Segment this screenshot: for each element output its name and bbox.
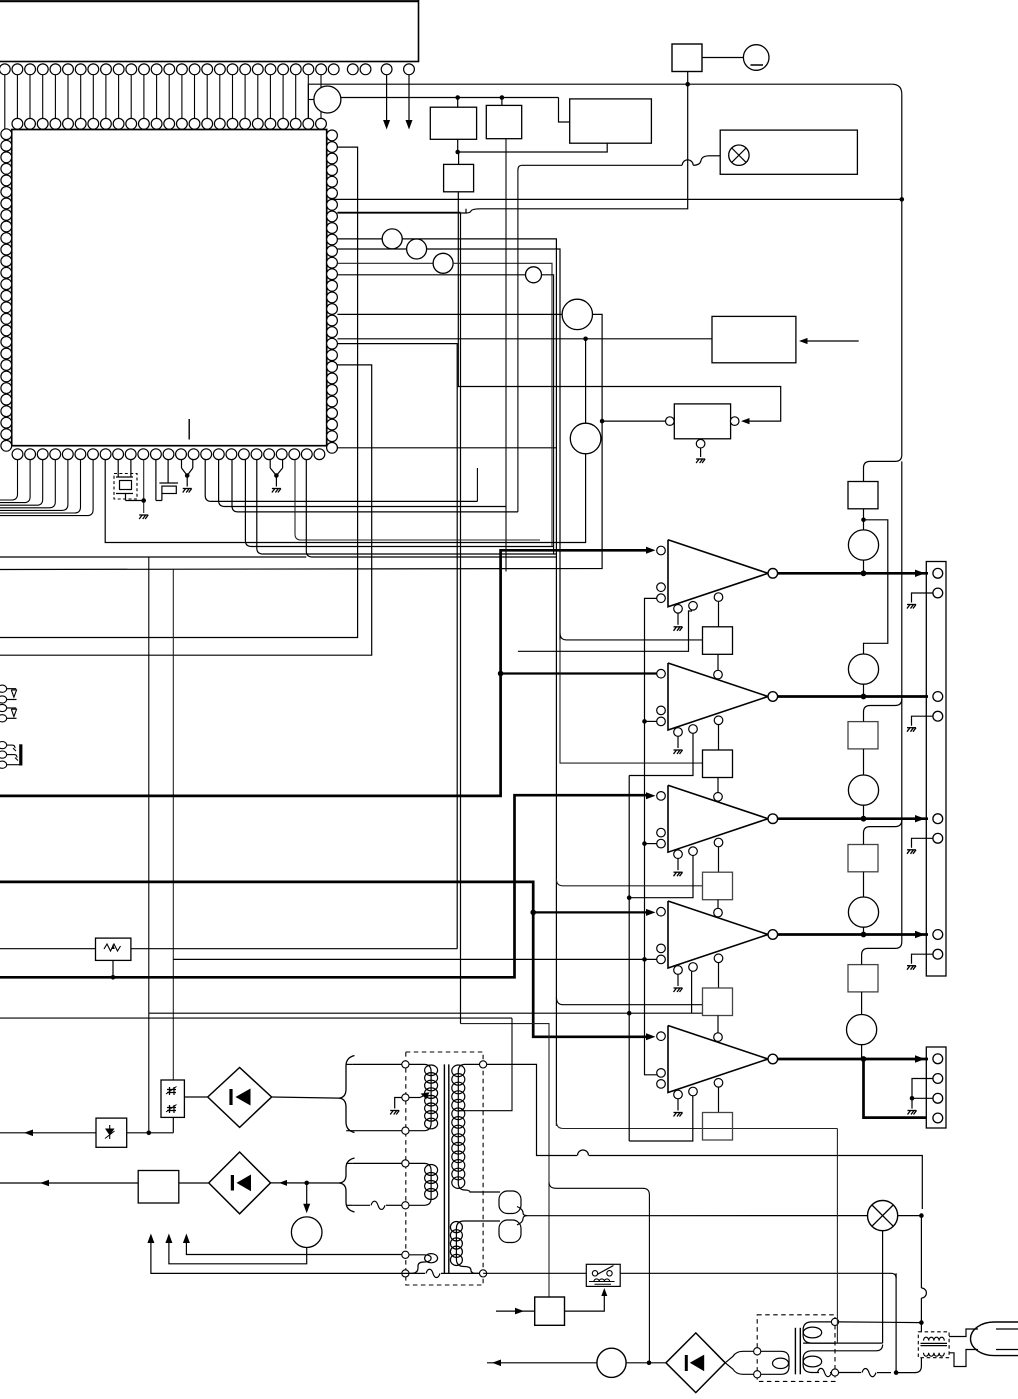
CN2 pin 3 <box>933 692 943 702</box>
wire J3 to output <box>863 805 865 819</box>
op-amp IC3 power amp ch2 <box>668 663 768 730</box>
T1 core <box>443 1064 445 1273</box>
IC5 bottom pin C <box>714 954 723 963</box>
wire BR2 bottom arm <box>353 1204 370 1206</box>
FL1 coil bottom <box>924 1353 945 1356</box>
wire to box B3 <box>559 98 570 123</box>
signal arrow down 1 <box>386 75 388 126</box>
IC4 bottom pin C <box>714 838 723 847</box>
wire amp4 bias long <box>173 958 656 960</box>
T1 secondary tap <box>458 1110 465 1112</box>
node TP7 feed <box>583 337 588 342</box>
surge absorber SA1 <box>0 1132 42 1134</box>
cable loops to AC line <box>472 1191 500 1193</box>
wire pin loop 2 <box>0 365 372 655</box>
X1 left pin <box>666 417 675 426</box>
power box PB1 <box>535 1297 565 1325</box>
CN2 pin 5 <box>933 814 943 824</box>
AC plug <box>970 1322 1018 1356</box>
feedback box FB5 <box>703 1113 733 1141</box>
IC U1 right pin 28 <box>327 442 338 453</box>
wire arrow into B5 <box>806 340 859 342</box>
wire gnd CN2 pin 4 <box>912 716 933 726</box>
CN2 pin 4 <box>933 711 943 721</box>
output jack J5 <box>847 1015 877 1045</box>
T1 terminal t9 <box>480 1270 487 1277</box>
wire BD2 row <box>0 1182 44 1184</box>
wire F1 to indicator <box>702 57 743 59</box>
wire PB1 to relay coil <box>565 1293 605 1311</box>
bridge rectifier BD2 <box>209 1152 271 1214</box>
fuse FS4 <box>848 965 878 992</box>
wire left exit 557 <box>0 556 306 558</box>
line filter FL1 box <box>918 1332 949 1358</box>
wire J1 to output <box>863 560 865 573</box>
node BD2 out <box>304 1181 309 1186</box>
wire supply line 1 <box>151 1240 425 1273</box>
IC6 output pin <box>768 1054 778 1064</box>
bus protect vertical <box>901 94 903 199</box>
wire t2 ground <box>395 1098 402 1109</box>
wire fan 7 <box>306 460 556 557</box>
wire osc vertical down <box>0 421 602 569</box>
arrow up 2 <box>165 1234 172 1244</box>
node AC bus <box>919 1213 924 1218</box>
wire output ch1 (thick) <box>778 572 928 575</box>
wire TP4 out <box>453 263 552 546</box>
T1 terminal t4 <box>402 1160 409 1167</box>
node box B1 feed <box>455 95 460 100</box>
IC4 bottom pin A <box>674 850 683 859</box>
fuse FS2 <box>848 722 878 749</box>
ground amp4 <box>674 988 683 992</box>
thermistor box TH1 <box>161 1080 184 1117</box>
arrow up 1 <box>147 1234 154 1244</box>
brace AC <box>517 1207 528 1225</box>
test point TP3 <box>407 239 427 259</box>
test point TP2 wire <box>337 238 382 240</box>
op-amp IC4 power amp ch3 <box>668 785 768 852</box>
T2 primary terminal 1 <box>754 1348 761 1355</box>
crystal circuit Z1 <box>117 460 119 477</box>
test point TP5 <box>526 267 542 283</box>
T1 terminal t2 <box>402 1094 409 1101</box>
wire FL2 to BD2 <box>179 1182 209 1184</box>
wire supply line 3 <box>186 1240 402 1255</box>
arrow up 3 <box>183 1234 190 1244</box>
connector CN1 (top board connector) <box>0 0 419 62</box>
T1 terminal t3 <box>402 1127 409 1134</box>
box B2 <box>501 98 503 106</box>
test point TP4 <box>433 253 453 273</box>
IC2 output pin <box>768 569 778 579</box>
wire FB4 down <box>717 1016 719 1033</box>
CN2 pin 1 <box>933 568 943 578</box>
node box B2 feed <box>500 95 505 100</box>
T1 terminal t7 <box>402 1270 409 1277</box>
ground CN2 1 <box>907 605 916 609</box>
wire jog to fuse S1 <box>864 455 902 482</box>
IC5 bottom pin A <box>674 966 683 975</box>
signal arrow down 2 <box>408 75 410 126</box>
op-amp IC6 power amp ch5 <box>668 1026 768 1093</box>
T1 primary winding W1 <box>402 1064 431 1130</box>
oscillator X1 box <box>674 404 730 439</box>
wire TP2 to bus A <box>402 239 556 1126</box>
wire FL1 to plug <box>949 1329 978 1337</box>
ground amp3 <box>674 872 683 876</box>
wire J4 to output <box>863 927 865 934</box>
bus amp4 amp5 feed (thick) <box>0 882 648 1037</box>
relay RL1 wire <box>483 1272 586 1274</box>
wire amp2 feed <box>501 672 657 674</box>
IC U1 left pins <box>1 129 12 451</box>
wire bundle fan 1 <box>205 460 477 502</box>
wire arrow to C bulk <box>306 1183 308 1206</box>
test point TP2 <box>382 229 402 249</box>
IC5 bottom pin B <box>689 963 698 972</box>
wire output ch5 (thick) <box>778 1058 928 1061</box>
wire pin to box B5 <box>337 338 712 340</box>
ground CN2 3 <box>907 850 916 854</box>
output jack J3 <box>848 775 878 805</box>
wire output ch3 (thick) <box>778 817 928 820</box>
wire jog to FS2 <box>864 699 902 722</box>
node amp4 feed <box>530 910 536 916</box>
fuse F1 <box>672 44 702 72</box>
output jack J2 <box>848 654 878 684</box>
wire gnd CN2 pin 2 <box>912 593 933 603</box>
wire TH1 to BD1 <box>184 1096 207 1098</box>
test point TP3 wire <box>337 248 406 250</box>
wire crystal gnd <box>126 500 144 502</box>
IC5 output pin <box>768 930 778 940</box>
node SA1 <box>147 1131 152 1136</box>
IC3 top pin <box>714 670 723 679</box>
bridge rectifier BD3 <box>666 1333 725 1393</box>
wire FS4 to J5 <box>861 992 863 1015</box>
ground T1 <box>390 1111 399 1115</box>
IC2 minus pins <box>657 583 666 592</box>
T2 secondary A <box>803 1322 836 1343</box>
IC6 bottom pin C <box>714 1079 723 1088</box>
fuse FS3 <box>848 845 878 872</box>
CN2 pin 7 <box>933 930 943 940</box>
T2 terminal sB <box>831 1369 838 1376</box>
wire ammeter line <box>487 1362 597 1364</box>
X1 bottom pin <box>696 439 705 448</box>
wire R1 right <box>131 948 457 950</box>
T1 terminal t6 <box>402 1251 409 1258</box>
box B3 (regulator) <box>570 99 652 143</box>
node amp2 bias <box>642 719 647 724</box>
wire W_b vertical feeds <box>148 557 150 1133</box>
wire B4 down to oscillator <box>458 192 780 421</box>
wire amp3 return <box>629 852 693 898</box>
capacitor C1 (ceramic) <box>155 460 157 501</box>
wire fan 6 <box>295 460 540 540</box>
T2 primary loop <box>725 1351 789 1374</box>
wire jog to FS3 <box>864 820 902 845</box>
X1 right pin <box>730 417 739 426</box>
IC U1 right pins <box>327 130 338 442</box>
IC5 top pin <box>714 908 723 917</box>
IC6 top pin <box>714 1033 723 1042</box>
ground CN3 <box>908 1111 917 1115</box>
wire sq2 feed <box>560 640 703 763</box>
CN3 pin 2 <box>933 1074 943 1084</box>
wire F1 down <box>481 72 688 209</box>
wire sq4 feed <box>556 997 702 1005</box>
wire AC bus down <box>920 1216 922 1288</box>
T1 primary winding W2 <box>402 1163 431 1205</box>
lamp symbol <box>729 145 749 165</box>
box B5 (detector) <box>712 316 796 362</box>
wire bias vertical <box>645 598 657 1074</box>
T2 primary terminal 2 <box>754 1371 761 1378</box>
wire TP3 to bus B <box>427 249 560 640</box>
wire pin to V bus <box>308 84 891 118</box>
wire TP1 stub <box>308 99 314 101</box>
transformer T2 box <box>757 1315 835 1382</box>
output jack J1 <box>848 530 878 560</box>
IC3 bottom pin B <box>689 725 698 734</box>
feedback box FB2 <box>703 750 733 778</box>
cable brace BR1 <box>339 1056 355 1133</box>
wire into PB1 <box>496 1310 535 1312</box>
cable brace BR2 <box>339 1158 355 1212</box>
wire gray link to relay <box>461 1024 550 1297</box>
node fuse feed <box>685 82 690 87</box>
connector pins group 2 (shielded) <box>0 742 7 749</box>
wire BR1 bottom arm <box>353 1130 402 1132</box>
wire pin9 to resistor line <box>337 344 457 949</box>
wire TP7 bottom loop <box>105 454 585 543</box>
wire into lamp box <box>693 156 709 166</box>
wire bus A to transformer line <box>556 1122 837 1129</box>
wire SA1 to TH1 <box>127 1132 174 1134</box>
node amp2 feed <box>498 671 504 677</box>
node AC filter <box>919 1320 924 1325</box>
wire T2B top join <box>836 1345 883 1351</box>
wire secondary top to AC <box>487 1064 577 1155</box>
IC4 bottom pin B <box>689 847 698 856</box>
wire osc feed line <box>149 1012 703 1014</box>
IC3 minus pins <box>657 706 666 715</box>
node r2 <box>627 895 632 900</box>
wire bus right top <box>332 198 902 200</box>
IC4 top pin <box>714 793 723 802</box>
relay RL1 <box>586 1264 620 1286</box>
wire jog to FS4 <box>862 942 902 965</box>
feedback box FB4 <box>703 988 733 1016</box>
wire long top feed <box>518 165 522 170</box>
wire bundle fan 2 <box>219 460 506 507</box>
capacitor C2 to gnd <box>181 460 183 468</box>
IC6 bottom pin B <box>689 1087 698 1096</box>
T1 terminal t1 <box>402 1061 409 1068</box>
wire BR1 top arm <box>353 1063 402 1065</box>
wire T2A top to filter <box>839 1321 922 1324</box>
wires CN1 to IC <box>5 75 321 130</box>
CN3 pin 3 <box>933 1093 943 1103</box>
fuse FS1 <box>848 482 878 509</box>
wire return vertical <box>629 730 693 776</box>
current meter M1 <box>597 1348 626 1377</box>
feedback box FB3 <box>703 872 733 900</box>
CN2 pin 8 <box>933 949 943 959</box>
test point TP5 wire <box>337 274 525 276</box>
IC5 input pin <box>657 907 666 916</box>
T1 winding tap arrow <box>409 1097 420 1099</box>
ground CN2 4 <box>907 966 916 970</box>
ground X1 <box>696 459 705 463</box>
connector pins group 1 <box>0 685 7 692</box>
wire lower link <box>337 447 556 449</box>
lamp box (display) <box>720 130 857 174</box>
wire CN3 return (thick) <box>864 1059 927 1118</box>
box B4 (small) <box>444 164 474 191</box>
IC U1 (main processor) <box>12 130 327 446</box>
FL1 coil top <box>924 1337 945 1340</box>
wire bundle fan 5 <box>257 460 557 554</box>
wire FS3 to J4 <box>863 872 865 897</box>
wire FL1 to plug bottom <box>949 1350 978 1367</box>
wire FB3 down <box>717 900 719 909</box>
CN2 pin 2 <box>933 588 943 598</box>
wire gnd CN2 pin 8 <box>912 954 933 964</box>
wire CN3 gnd pins <box>912 1079 933 1109</box>
node amp3 bias <box>642 841 647 846</box>
wire gnd CN2 pin 6 <box>912 838 933 848</box>
IC4 output pin <box>768 814 778 824</box>
capacitor C3 to gnd <box>269 460 271 468</box>
ground amp1 <box>674 627 683 631</box>
wire pin8 long vertical <box>337 211 460 213</box>
wire FS2 to J3 <box>863 749 865 775</box>
T1 secondary winding W5 <box>456 1221 479 1273</box>
node amp4 bias <box>642 957 647 962</box>
wire TH1 bottom <box>172 1117 174 1132</box>
wire TP1 out <box>341 97 453 99</box>
bridge rectifier BD1 <box>208 1068 272 1128</box>
IC5 minus pins <box>657 944 666 953</box>
op-amp IC2 power amp ch1 <box>668 540 768 607</box>
T1 terminal t8 <box>480 1061 487 1068</box>
IC U1 bottom pins <box>12 449 325 460</box>
IC4 minus pins <box>657 828 666 837</box>
resistor box R1 <box>0 948 96 950</box>
wire amp4 feed <box>533 911 648 913</box>
ground CN2 2 <box>907 728 916 732</box>
wire amp4 return <box>691 972 693 1014</box>
wire M1 to BD3 <box>626 1362 666 1364</box>
feedback box FB1 <box>703 627 733 655</box>
T2 terminal sA <box>831 1318 838 1325</box>
wire output ch2 (thick) <box>778 695 928 698</box>
ground amp2 <box>674 750 683 754</box>
CN1 pin row (upper) <box>0 64 414 75</box>
wire TP6 to oscillator line <box>593 314 603 421</box>
wire sq3 feed <box>556 879 702 886</box>
node r3 <box>627 1011 632 1016</box>
node FS1 out <box>863 509 865 530</box>
transformer T1 shield box <box>406 1052 483 1285</box>
T1 bias winding W3 <box>402 1255 431 1274</box>
bus amp3 feed (thick) <box>0 795 648 977</box>
wire FB2 down <box>717 778 719 793</box>
output jack J4 <box>848 897 878 927</box>
CN3 pin 1 <box>933 1054 943 1064</box>
CN3 pin 4 <box>933 1113 943 1123</box>
connector CN2 (speaker terminals) <box>926 562 946 977</box>
test point TP1 <box>314 86 341 113</box>
test point TP6 <box>562 299 592 329</box>
IC2 bottom pin C <box>714 593 723 602</box>
wire B1 to B3 <box>457 139 459 152</box>
wire bundle fan 4 <box>245 460 553 547</box>
IC4 input pin <box>657 792 666 801</box>
IC2 input pin <box>657 546 666 555</box>
wire BD2 to brace <box>271 1182 340 1184</box>
IC6 input pin <box>657 1032 666 1041</box>
wire bottom-left exits <box>0 460 93 516</box>
wire branch to AC lamp <box>549 1182 649 1363</box>
wire TP7 link <box>585 339 587 423</box>
indicator lamp P1 <box>743 45 769 71</box>
wire BR2 top arm <box>353 1162 402 1164</box>
wire TP5 out <box>542 275 554 554</box>
wire J2 to output <box>863 684 865 696</box>
wire tap line <box>0 1017 512 1019</box>
wire T2A bottom to lamp <box>803 1342 883 1344</box>
IC3 bottom pin C <box>714 716 723 725</box>
wire bundle fan 3 <box>232 460 518 512</box>
node AC neutral <box>894 1370 899 1375</box>
wire lamp to filter bus <box>898 1215 922 1217</box>
filter box FL2 <box>138 1171 179 1204</box>
T2 core <box>794 1328 796 1375</box>
IC U1 pin1 mark <box>188 419 190 440</box>
T1 secondary winding W4 <box>458 1064 486 1192</box>
bus audio L1 feed (thick) <box>0 550 648 796</box>
wire amp5 return <box>629 1095 693 1141</box>
test point TP4 wire <box>337 262 433 264</box>
IC3 input pin <box>657 669 666 678</box>
wire return to IC pin <box>337 209 466 213</box>
FL1 core <box>921 1342 948 1344</box>
wire FS1 branch <box>864 520 888 654</box>
wire T2B bottom <box>839 1372 861 1374</box>
IC6 minus pins <box>657 1069 666 1078</box>
wire C bulk bottom <box>169 1240 307 1264</box>
IC2 bottom pin B <box>689 602 698 611</box>
test point TP7 <box>570 423 601 454</box>
op-amp IC5 power amp ch4 <box>668 901 768 968</box>
wire BD1 feed <box>272 1097 340 1098</box>
IC3 bottom pin A <box>674 728 683 737</box>
T1 terminal t5 <box>402 1202 409 1209</box>
connector CN3 (line out) <box>926 1047 946 1128</box>
node osc <box>600 419 605 424</box>
wire J5 to output <box>861 1045 863 1059</box>
IC3 output pin <box>768 692 778 702</box>
capacitor C bulk <box>291 1217 322 1248</box>
AC indicator lamp P2 <box>868 1201 898 1231</box>
wire pin2 loop <box>0 147 358 637</box>
wire R1 to bus <box>112 960 114 977</box>
wire amp1 fb return <box>518 610 692 652</box>
